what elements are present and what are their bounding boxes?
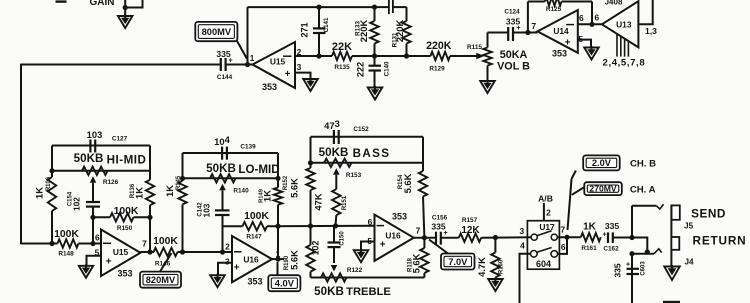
svg-text:604: 604 [536, 259, 551, 269]
capacitor C141 271 [318, 6, 320, 28]
callout 2.0V [583, 155, 620, 170]
svg-text:LO-MID: LO-MID [238, 163, 279, 176]
junction jack node [629, 235, 634, 240]
svg-text:2: 2 [546, 208, 551, 218]
wire HI-MID pot rail [52, 170, 150, 172]
svg-text:220K: 220K [394, 20, 405, 43]
svg-text:C162: C162 [603, 245, 619, 252]
svg-text:R129: R129 [429, 66, 445, 73]
junction pin6 node [90, 241, 95, 246]
svg-text:A/B: A/B [538, 194, 553, 204]
junction LO-MID rail/pot [180, 176, 185, 181]
junction R160 top [493, 235, 498, 240]
svg-text:J5: J5 [684, 222, 694, 231]
svg-text:6: 6 [368, 217, 373, 227]
wire LO-MID right rail / U16a output vertical [277, 153, 279, 188]
junction output U16a [275, 257, 280, 262]
wire pin4 down [520, 254, 531, 303]
svg-text:U16: U16 [385, 231, 401, 241]
svg-text:7: 7 [416, 226, 421, 236]
wire to SEND jack [631, 206, 633, 238]
svg-text:C156: C156 [432, 215, 448, 222]
resistor R129 220K [431, 52, 451, 60]
wire HI-MID bridge [52, 145, 150, 147]
junction pin7/pin6 [564, 235, 569, 240]
capacitor C124 335 [507, 27, 509, 41]
callout 270MV [584, 182, 622, 195]
wire pin3 to ground [295, 73, 311, 79]
svg-text:5.6K: 5.6K [289, 178, 300, 198]
op-amp U15 (second half, points right) [101, 230, 140, 277]
svg-text:R150: R150 [117, 225, 133, 232]
svg-text:C139: C139 [240, 144, 256, 151]
wire U14 pin6 to U13 [578, 23, 602, 25]
svg-text:12K: 12K [461, 225, 480, 236]
svg-text:100K: 100K [244, 211, 269, 222]
svg-text:47K: 47K [313, 193, 324, 210]
svg-text:+: + [516, 23, 521, 32]
svg-text:353: 353 [262, 82, 277, 92]
wire pin7 out [557, 236, 580, 238]
wire to ground [124, 8, 126, 17]
junction wiper/feedback [90, 215, 95, 220]
svg-text:5.6K: 5.6K [411, 253, 422, 273]
svg-text:102: 102 [73, 197, 82, 211]
op-amp U16 (first half, points right) [232, 236, 272, 282]
svg-text:335: 335 [605, 221, 620, 231]
wire jack common [670, 205, 672, 266]
svg-text:4.0V: 4.0V [275, 279, 295, 289]
junction node X [333, 223, 338, 228]
wiper R126 [90, 176, 97, 183]
potentiometer R115 50KA VOL B [487, 33, 489, 48]
svg-text:R147: R147 [246, 234, 262, 241]
wire R129 to pot wiper [450, 55, 477, 57]
junction pin2 node [220, 249, 225, 254]
svg-text:C141: C141 [323, 17, 330, 32]
wire feedback top [248, 6, 375, 8]
svg-text:CH. A: CH. A [630, 185, 656, 196]
svg-text:3: 3 [225, 257, 230, 267]
levers [537, 231, 551, 236]
capacitor C144 335 [220, 58, 222, 71]
svg-text:6: 6 [579, 13, 584, 23]
svg-text:103: 103 [87, 129, 103, 140]
svg-text:C124: C124 [504, 9, 520, 16]
capacitor C138 (clipped at top) [375, 6, 390, 8]
svg-text:U15: U15 [270, 57, 286, 67]
capacitor C150 102 [333, 226, 335, 243]
svg-text:1K: 1K [34, 187, 45, 199]
clipped element at bottom edge [663, 301, 680, 303]
wire HI-MID right rail / output vertical [149, 146, 151, 171]
svg-text:1: 1 [250, 54, 255, 63]
svg-text:R148: R148 [58, 251, 74, 258]
op-amp U16 (second half, points right) [375, 215, 414, 261]
pointer 4.0V [277, 262, 279, 275]
wire C124 to U14 pin7 [513, 32, 538, 34]
svg-text:C140: C140 [384, 61, 391, 76]
svg-text:R125: R125 [546, 6, 562, 13]
wire treble rail [311, 277, 425, 279]
resistor R145 1K [178, 181, 186, 205]
ground (U15 pin3) [303, 79, 318, 91]
junction HI-MID rail bottom [49, 241, 54, 246]
wire BASS bridge [311, 136, 424, 138]
svg-text:222: 222 [356, 62, 366, 77]
resistor R147 100K (feedback) [223, 225, 243, 227]
svg-text:HI-MID: HI-MID [107, 154, 147, 167]
svg-text:C150: C150 [340, 231, 346, 246]
wire input to R148 [21, 243, 58, 245]
junction pin6 [589, 22, 594, 27]
wire pin5 to ground [361, 242, 375, 251]
svg-text:5.6K: 5.6K [289, 250, 300, 270]
resistor R131 220K [406, 7, 408, 21]
resistor R136 1K [146, 180, 154, 205]
svg-text:RETURN: RETURN [693, 234, 747, 248]
wire pin6 jog [558, 237, 567, 254]
junction LO-MID rail bottom [180, 249, 185, 254]
svg-text:VOL B: VOL B [497, 61, 530, 73]
svg-text:353: 353 [392, 212, 407, 222]
svg-text:R161: R161 [581, 245, 597, 252]
svg-text:C152: C152 [353, 126, 369, 133]
pointer 7.0V [429, 240, 448, 254]
resistor R149 1K [274, 188, 282, 205]
capacitor C603 335 down [631, 254, 633, 303]
svg-text:SEND: SEND [691, 207, 726, 221]
node pin1 junction [245, 62, 250, 67]
svg-text:7: 7 [531, 21, 536, 31]
wiper arrow to treble [331, 265, 338, 272]
junction feedback/bass rail [308, 223, 313, 228]
resistor R146 100K [154, 248, 178, 256]
wiper R153 [333, 168, 340, 175]
ground (U16b pin5) [354, 250, 369, 262]
svg-text:R135: R135 [334, 64, 350, 71]
svg-text:+: + [443, 230, 447, 237]
svg-text:+: + [380, 240, 386, 251]
resistor R151 47K [332, 189, 340, 215]
resistor R133 220K [374, 7, 376, 21]
junction feedback T [147, 215, 152, 220]
wire GAIN net step [125, 0, 142, 8]
wire return contact loop [632, 238, 647, 254]
svg-text:3: 3 [297, 62, 302, 72]
U13 bus pins 2,4,5,7,8 [616, 34, 618, 57]
svg-text:270MV: 270MV [589, 184, 616, 194]
junction C141 top [316, 5, 321, 10]
capacitor C154 102 [86, 201, 100, 203]
svg-text:2.0V: 2.0V [592, 158, 612, 168]
svg-text:1,3: 1,3 [645, 26, 657, 36]
wire pin5 to ground [87, 256, 102, 266]
svg-text:CH. B: CH. B [630, 159, 656, 170]
wire input bus left (long) [21, 64, 221, 66]
svg-text:R122: R122 [347, 267, 363, 274]
wire feedback vertical pin1 [247, 7, 249, 64]
pointer 820MV [160, 253, 172, 272]
capacitor C127 103 [89, 140, 91, 153]
resistor R157 12K [459, 234, 481, 242]
svg-text:R157: R157 [462, 217, 478, 224]
jack J5 SEND [671, 205, 679, 219]
wire pin2 net [295, 55, 332, 57]
svg-text:4: 4 [520, 241, 525, 251]
svg-text:3: 3 [519, 226, 524, 236]
wiper R140 [219, 184, 226, 191]
svg-text:1K: 1K [583, 222, 597, 233]
svg-text:+: + [285, 69, 291, 80]
svg-text:353: 353 [117, 269, 132, 279]
svg-text:5.6K: 5.6K [402, 173, 413, 193]
op-amp U14 (points left) [538, 10, 578, 53]
svg-text:+: + [602, 232, 606, 239]
capacitor C162 335 [607, 232, 609, 243]
pointer 270MV [568, 179, 572, 230]
wire BASS pot rail [311, 162, 424, 164]
ground (R115) [480, 81, 495, 93]
resistor R154 5.6K (bass right rail) [422, 137, 424, 171]
resistor R190 5.6K [306, 245, 314, 272]
svg-text:271: 271 [300, 22, 310, 37]
svg-text:R140: R140 [233, 188, 249, 195]
svg-text:353: 353 [247, 277, 262, 287]
ground (C140) [368, 88, 383, 100]
svg-text:U13: U13 [616, 20, 632, 30]
ground (U16a pin3) [210, 275, 225, 287]
ground (GAIN net) [118, 16, 133, 28]
callout 820MV [140, 272, 181, 288]
svg-text:7: 7 [560, 225, 565, 235]
svg-text:R151: R151 [342, 195, 348, 210]
jack J4 RETURN [671, 237, 679, 250]
svg-text:J4: J4 [684, 258, 694, 267]
wire C144 to U15 pin1 [226, 64, 253, 66]
resistor R161 1K [581, 233, 601, 241]
junction HI-MID rail/pot [49, 168, 54, 173]
svg-text:TREBLE: TREBLE [346, 286, 391, 298]
wire U13 pins 1,3 to top [638, 0, 652, 24]
svg-text:50KB: 50KB [314, 285, 344, 298]
resistor R148 100K [58, 239, 79, 247]
svg-text:GAIN: GAIN [90, 0, 115, 8]
svg-text:U14: U14 [553, 26, 569, 36]
resistor R152 5.6K [306, 168, 314, 190]
callout 800MV [195, 22, 237, 41]
svg-text:820MV: 820MV [146, 275, 176, 285]
potentiometer R140 50KB LO-MID [210, 174, 236, 182]
svg-text:C127: C127 [112, 136, 128, 143]
svg-text:50KB: 50KB [319, 146, 349, 159]
svg-text:50KA: 50KA [500, 49, 528, 61]
svg-text:2,4,5,7,8: 2,4,5,7,8 [603, 58, 646, 69]
junction U14 pin7/feedback [525, 30, 530, 35]
capacitor C152 473 [333, 130, 335, 144]
svg-text:+: + [228, 58, 232, 65]
svg-text:+: + [565, 38, 571, 49]
ground (U15b pin5) [79, 266, 94, 278]
svg-text:R153: R153 [346, 172, 362, 179]
svg-text:J408: J408 [605, 0, 623, 7]
resistor R150 100K (feedback) [93, 216, 110, 218]
svg-text:100K: 100K [114, 206, 139, 217]
ground (jacks) [664, 267, 680, 281]
pointer 800MV [237, 41, 247, 59]
wire pot to C124 [488, 32, 509, 34]
ground (R160) [488, 279, 503, 291]
resistor R106 1K [48, 177, 56, 211]
svg-text:50KB: 50KB [206, 162, 236, 175]
capacitor C139 104 [221, 147, 223, 160]
svg-text:100K: 100K [54, 229, 79, 240]
svg-text:103: 103 [203, 203, 212, 217]
wire U14 feedback up [527, 2, 529, 33]
svg-text:+: + [626, 262, 630, 269]
callout 4.0V [268, 275, 300, 291]
capacitor C156 335 [435, 232, 437, 245]
svg-text:U16: U16 [243, 255, 259, 265]
wiper arrow R115 [476, 53, 484, 60]
potentiometer R153 50KB BASS [324, 159, 352, 167]
svg-text:6: 6 [594, 13, 599, 23]
junction R133 bottom [372, 53, 377, 58]
svg-text:R115: R115 [467, 44, 482, 51]
callout 7.0V [441, 254, 475, 270]
svg-text:U15: U15 [113, 247, 129, 257]
svg-text:800MV: 800MV [202, 27, 232, 37]
potentiometer R122 50KB TREBLE [310, 226, 312, 245]
junction output U16b [422, 235, 427, 240]
capacitor C142 103 [215, 209, 230, 211]
svg-text:1K: 1K [164, 185, 175, 197]
switch U17 604 [527, 221, 559, 270]
resistor R125 (clipped at top) [545, 0, 562, 6]
svg-text:C603: C603 [641, 261, 647, 276]
svg-text:C144: C144 [217, 74, 233, 81]
capacitor C140 222 to ground [374, 56, 376, 66]
send contact [656, 204, 663, 209]
op-amp U15 (first half, points left) [253, 42, 296, 88]
svg-text:50KB: 50KB [74, 152, 104, 165]
svg-text:220K: 220K [426, 40, 452, 52]
svg-text:U17: U17 [539, 222, 555, 232]
svg-text:4.7K: 4.7K [476, 257, 487, 277]
svg-text:6: 6 [561, 242, 566, 252]
svg-text:R106: R106 [46, 176, 52, 191]
svg-text:BASS: BASS [353, 147, 391, 160]
svg-text:R126: R126 [103, 179, 119, 186]
svg-text:+: + [106, 257, 112, 268]
treble zigzag [321, 273, 347, 281]
svg-text:R146: R146 [155, 261, 171, 268]
svg-text:R160: R160 [499, 259, 505, 274]
svg-text:1K: 1K [262, 190, 273, 202]
return contact [654, 249, 662, 254]
svg-text:1K: 1K [134, 187, 145, 199]
wire LO-MID pot rail [183, 177, 279, 179]
resistor R160 4.7K to ground [494, 238, 496, 253]
contact circles [531, 234, 537, 240]
wire feedback down to pin6 [591, 2, 593, 25]
svg-text:353: 353 [552, 49, 567, 59]
svg-text:220K: 220K [358, 20, 369, 43]
svg-text:7: 7 [142, 239, 147, 249]
junction GAIN/ground [123, 5, 128, 10]
svg-text:100K: 100K [153, 236, 178, 247]
svg-text:335: 335 [613, 263, 623, 278]
svg-text:6: 6 [95, 233, 100, 243]
junction bass rail/pot [308, 160, 313, 165]
junction feedback/output [275, 224, 280, 229]
resistor R135 22K [332, 52, 352, 60]
junction R133 top [372, 5, 377, 10]
junction C141 bottom [316, 53, 321, 58]
svg-text:7.0V: 7.0V [448, 257, 468, 267]
wire pin2 net right [352, 55, 431, 57]
junction pot rail [275, 176, 280, 181]
svg-text:+: + [234, 263, 240, 274]
potentiometer R126 50KB HI-MID [82, 167, 108, 175]
junction output node [147, 249, 152, 254]
wire LO-MID bridge [183, 152, 279, 154]
svg-text:22K: 22K [332, 41, 352, 53]
resistor R118 5.6K [423, 238, 425, 248]
svg-text:2: 2 [225, 242, 230, 252]
wire U14 pin5 to ground [578, 40, 591, 48]
ground (U14 pin5) [584, 48, 599, 60]
wire pin3 to ground [218, 263, 232, 276]
